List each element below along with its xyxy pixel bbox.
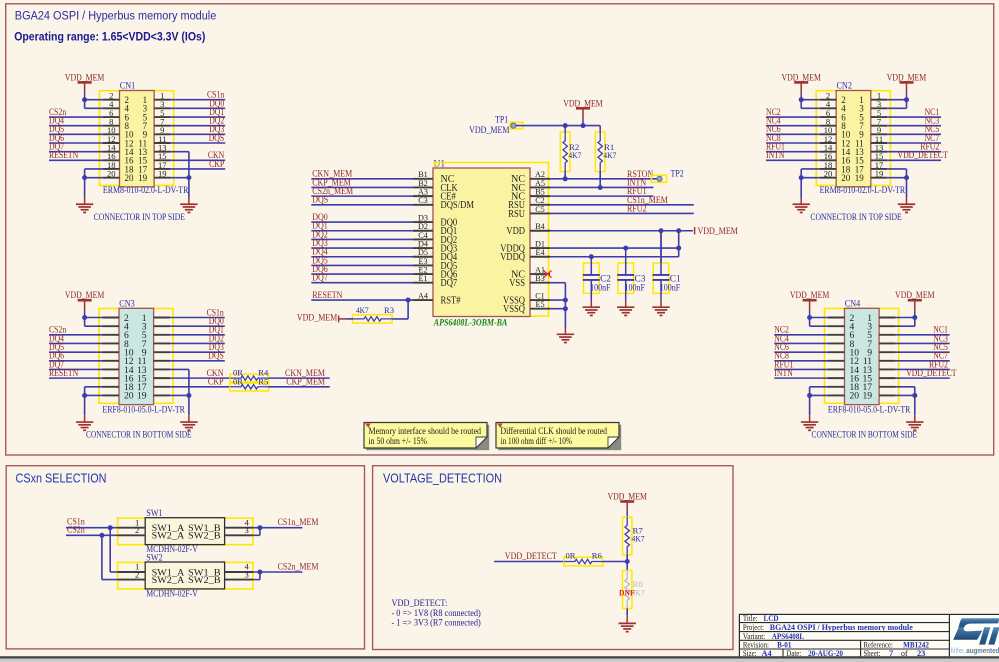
wire DQ2 to U1 [311,230,413,240]
test point TP2 [652,169,685,182]
CN4 pin stubs [828,318,896,396]
wire NC6 to CN4 pin 10 [774,342,828,352]
svg-text:0R: 0R [233,376,243,386]
power port VDD_MEM at VDD rail [695,227,738,237]
power symbol VDD_MEM at CN4 right [895,290,935,317]
SW2 pin names [152,568,221,586]
CN4 selection box [825,309,899,404]
svg-text:E3: E3 [418,257,427,266]
resistor R1 4K7 [595,126,617,172]
wire NC3 to CN2 pin 7 [887,116,941,126]
wire NC3 to CN4 pin 7 [896,333,950,343]
op IC U1 APS6408L [413,159,552,328]
svg-text:Title:: Title: [743,614,758,623]
wire VDDQ from U1 D1 [550,246,681,251]
svg-text:20: 20 [125,173,135,183]
power symbol VDD_MEM at CN2 right [887,72,927,99]
test point TP1 [469,116,523,136]
CN2 selection box [816,91,890,186]
svg-text:VDD_DETECT: VDD_DETECT [906,368,957,378]
svg-text:19: 19 [158,168,167,178]
wire CS2n_MEM to U1 [311,187,413,197]
svg-text:4K7: 4K7 [632,533,646,543]
ground symbol at CN2 left [793,204,810,212]
wire INTN to CN2 pin 16 [766,150,820,160]
svg-text:RFU2: RFU2 [627,204,647,214]
svg-text:VSS: VSS [509,278,525,289]
power symbol VDD_MEM at CN2 left [781,72,821,99]
svg-text:ERF8-010-05.0-L-DV-TR: ERF8-010-05.0-L-DV-TR [828,405,911,415]
svg-text:A1: A1 [535,265,545,274]
wire DQ6 to CN3 pin 12 [49,351,103,361]
svg-text:C2: C2 [535,196,545,205]
wire RFU2 to CN2 pin 13 [887,142,941,152]
svg-text:C5: C5 [535,205,545,214]
wire VDD_MEM to CN2 pins 2,4 [799,97,820,108]
svg-text:VDD: VDD [506,226,525,237]
wire NC5 to CN4 pin 9 [896,342,950,352]
svg-text:VDD_MEM: VDD_MEM [469,126,509,136]
svg-text:SW2_A: SW2_A [152,532,185,542]
window bottom strip [0,656,999,659]
U1 pin designators [418,170,545,309]
svg-text:ERM8-010-02.0-L-DV-TR: ERM8-010-02.0-L-DV-TR [820,186,906,196]
wire INTN to CN4 pin 16 [774,368,828,378]
wire CKN from CN3 pin 15 [170,369,230,379]
power symbol VDD_MEM above R1 R2 [563,98,603,125]
svg-text:INTN: INTN [774,368,793,378]
svg-text:VDD_MEM: VDD_MEM [65,290,105,300]
svg-text:A5: A5 [535,179,545,188]
svg-text:20: 20 [824,168,833,178]
wire DQ6 to U1 [311,265,413,275]
svg-text:RESETN: RESETN [49,368,79,378]
ground symbol below C2 [583,307,600,315]
svg-text:DQS/DM: DQS/DM [441,200,475,211]
wire DQ4 to CN1 pin 8 [49,116,103,126]
svg-text:VDD_MEM: VDD_MEM [563,98,603,108]
wire RESETN to CN1 pin 16 [49,150,103,160]
svg-text:VDD_MEM: VDD_MEM [790,290,830,300]
svg-text:E1: E1 [418,274,427,283]
connector CN1 [94,82,189,223]
svg-text:LCD: LCD [764,614,779,623]
resistor R8 4K7 DNF [619,562,645,609]
wire DQS to CN1 pin 11 [171,133,226,143]
svg-text:RST#: RST# [441,295,461,306]
svg-text:RESETN: RESETN [49,150,79,160]
svg-text:VDD_DETECT: VDD_DETECT [505,552,557,562]
wire ('VDD_DETECT', 956.5, 'end') to CN4 pin 15 [896,368,957,378]
wire R2 to RSTON [564,172,566,179]
CN2 body [836,91,871,187]
CN3 pin numbers [124,313,147,402]
wire RFU1 to CN2 pin 14 [766,142,820,152]
wire CS1n_MEM from U1 C2 [550,196,694,206]
svg-text:19: 19 [863,391,873,402]
wire CS1n to CN3 pin 1 [170,307,225,317]
wire TP1 VDD_MEM rail [516,123,600,128]
wire R3 to RESETN [392,300,408,319]
wire CS2n to SW1 pin 2 [66,526,118,538]
svg-text:VDD_MEM: VDD_MEM [65,72,105,82]
svg-text:0R: 0R [566,551,576,561]
svg-text:A3: A3 [418,188,428,197]
wire DQ0 to U1 [311,213,413,223]
CN4 pin numbers [850,313,873,402]
svg-text:CONNECTOR IN BOTTOM SIDE: CONNECTOR IN BOTTOM SIDE [812,431,918,441]
svg-text:in 100 ohm diff +/- 10%: in 100 ohm diff +/- 10% [501,436,573,446]
wire NC2 to CN4 pin 6 [774,325,828,335]
wire NC7 to CN4 pin 11 [896,351,950,361]
ground symbol at CN4 right [906,422,923,430]
wire RFU2 from U1 C5 [550,204,694,214]
svg-text:DQ7: DQ7 [312,274,328,284]
svg-text:SW2_B: SW2_B [188,532,221,542]
wire R1 to INTN [599,172,601,188]
wire DQ5 to CN1 pin 10 [49,124,103,134]
svg-text:CS2n: CS2n [67,526,85,536]
wire CKN to CN1 pin 15 [171,150,226,160]
svg-text:VDD_DETECT: VDD_DETECT [898,150,949,160]
wire INTN from U1 A5 [550,178,654,190]
CN3 selection box [99,309,173,404]
CN1 body [120,91,155,187]
resistor R2 4K7 [560,126,582,172]
CN1 pin numbers [107,91,167,183]
wire ('VDD_DETECT', 947.8, 'end') to CN2 pin 15 [887,150,948,160]
capacitor C3 100nF [617,248,646,307]
svg-text:CKP: CKP [208,378,224,388]
wire NC8 to CN4 pin 12 [774,351,828,361]
wire VSS VSSQ to ground [550,283,568,335]
svg-text:100nF: 100nF [660,283,680,293]
ground symbol below C1 [652,307,669,315]
CSxn selection section border [6,466,364,649]
svg-text:CKP_MEM: CKP_MEM [286,378,325,388]
wire DQ7 to CN1 pin 14 [49,142,103,152]
svg-text:VOLTAGE_DETECTION: VOLTAGE_DETECTION [383,470,502,485]
svg-text:R6: R6 [592,551,603,561]
U1 body [433,168,530,317]
wire RFU1 to CN4 pin 14 [774,359,828,369]
CN2 pin stubs [820,100,888,178]
power symbol VDD_MEM voltage detection [607,491,647,517]
U1 selection box [435,163,549,317]
svg-text:Differential CLK should be rou: Differential CLK should be routed [501,426,608,436]
wire NC4 to CN2 pin 8 [766,116,820,126]
svg-text:20: 20 [841,173,851,183]
svg-text:100nF: 100nF [590,283,610,293]
wire CKP_MEM from R5 [269,378,330,388]
wire VDD_MEM to CN1 pins 2,4 [82,97,103,108]
wire CS1n to SW1 pin 1 [66,518,118,531]
svg-text:3: 3 [244,569,248,579]
wire CN2 pins 18,20 to ground [799,169,820,204]
svg-text:CONNECTOR IN TOP SIDE: CONNECTOR IN TOP SIDE [810,213,902,223]
svg-text:CS1n_MEM: CS1n_MEM [278,518,319,528]
note: memory interface routing [364,423,489,451]
wire DQ7 to CN3 pin 14 [49,359,103,369]
svg-text:VDD_MEM: VDD_MEM [297,314,337,324]
svg-text:APS6408L: APS6408L [772,632,805,641]
wire DQ7 to U1 [311,274,413,284]
svg-text:A4: A4 [418,291,428,300]
U1 pin stubs [413,179,550,309]
svg-text:19: 19 [138,173,148,183]
wire DQ3 to CN3 pin 9 [170,342,225,352]
svg-text:ERF8-010-05.0-L-DV-TR: ERF8-010-05.0-L-DV-TR [102,405,185,415]
wire NC5 to CN2 pin 9 [887,124,941,134]
voltage detection explanation text [392,598,481,628]
wire RESETN to CN3 pin 16 [49,368,103,378]
ground symbol at CN3 right [180,422,197,430]
ground symbol at CN1 right [180,204,197,212]
connector CN3 [86,299,192,440]
wire DQ3 to U1 [311,239,413,249]
switch SW1 MCDHN-02F-V [118,509,253,555]
note: differential clock routing [496,423,621,451]
SW2 pin stubs [118,572,253,580]
CN4 body [845,308,880,404]
wire VDD net from U1 B4 [550,228,693,233]
wire NC7 to CN2 pin 11 [887,133,941,143]
wire VDD_MEM to CN4 pins 2,4 [807,315,828,326]
switch SW2 MCDHN-02F-V [118,553,253,599]
power port VDD_MEM at R3 [297,314,346,324]
capacitor C1 100nF [653,231,682,307]
wire DQ0 to CN3 pin 3 [170,316,225,326]
wire NC2 to CN2 pin 6 [766,107,820,117]
svg-text:TP2: TP2 [671,169,685,179]
svg-text:CONNECTOR IN TOP SIDE: CONNECTOR IN TOP SIDE [94,213,186,223]
svg-text:E5: E5 [535,300,544,309]
svg-text:RESETN: RESETN [312,291,342,301]
svg-text:19: 19 [875,168,884,178]
SW1 pin stubs [118,528,253,536]
svg-text:VDD_MEM: VDD_MEM [698,227,738,237]
SW1 pin names [152,524,221,542]
wire CN3 pins 18,20 to ground [82,387,102,422]
wire CS2n to CN3 pin 6 [49,325,103,335]
wire DQ5 to U1 [311,256,413,266]
wire CN3 right pins to ground [170,369,191,422]
wire CN4 right pins to ground [896,387,918,422]
svg-text:20: 20 [107,168,116,178]
wire CS1n_MEM from SW1 [253,518,319,535]
wire C1 to VDD rail [660,231,662,264]
power symbol VDD_MEM at CN3 left [65,290,105,317]
svg-text:R5: R5 [258,376,268,386]
svg-text:D4: D4 [418,239,428,248]
svg-text:D3: D3 [418,214,428,223]
svg-text:DQ7: DQ7 [441,278,458,289]
svg-text:SW2_B: SW2_B [188,576,221,586]
power symbol VDD_MEM at CN4 left [790,290,830,317]
svg-text:C4: C4 [418,231,428,240]
ground symbol below U1 VSS [557,334,574,342]
wire NC8 to CN2 pin 12 [766,133,820,143]
svg-text:MCDHN-02F-V: MCDHN-02F-V [146,589,198,599]
wire R6 to node [603,561,628,563]
ground symbol at CN3 left [76,422,93,430]
svg-text:B1: B1 [418,170,428,179]
wire RSTON from U1 A2 [550,170,657,182]
svg-text:Memory interface should be rou: Memory interface should be routed [369,426,482,436]
wire CS1n to CN1 pin 1 [171,90,226,100]
svg-text:B5: B5 [535,188,545,197]
SW1 body [145,518,224,545]
svg-text:CKP: CKP [209,159,224,169]
wire CN1 pins 18,20 to ground [82,169,103,204]
wire CKN_MEM from R4 [269,369,330,379]
svg-text:VDD_MEM: VDD_MEM [887,72,927,82]
wire CKP from CN3 pin 17 [170,378,230,388]
wire DQ1 to CN3 pin 5 [170,325,225,335]
svg-text:B4: B4 [535,222,545,231]
svg-text:D5: D5 [418,248,428,257]
wire VDD_MEM to CN4 pins 1,3 [896,315,918,326]
svg-text:D2: D2 [418,222,428,231]
wire DQ1 to CN1 pin 5 [171,107,226,117]
wire CN4 pins 18,20 to ground [807,387,828,422]
SW2 pin numbers [135,562,250,580]
wire CS2n_MEM from SW2 [253,562,319,579]
resistor R5 0R [230,376,269,391]
svg-text:DQS: DQS [209,133,225,143]
wire DQ2 to CN1 pin 7 [171,116,226,126]
title block texts [743,614,929,658]
svg-text:C1: C1 [535,291,545,300]
wire DQ3 to CN1 pin 9 [171,124,226,134]
connector CN2 [810,82,905,223]
svg-text:19: 19 [855,173,865,183]
svg-text:DQS: DQS [312,196,328,206]
CN3 pin stubs [103,318,171,396]
svg-text:Variant:: Variant: [743,632,765,641]
resistor R4 0R [230,368,269,382]
svg-text:VDD_MEM: VDD_MEM [895,290,935,300]
wire VDD_MEM to CN3 pins 2,4 [82,315,102,326]
wire CKP to CN1 pin 17 [171,159,226,169]
svg-text:BGA24 OSPI / Hyperbus memory m: BGA24 OSPI / Hyperbus memory module [15,8,217,22]
ground symbol at CN1 left [76,204,93,212]
capacitor C2 100nF [583,257,612,307]
svg-text:VDD_MEM: VDD_MEM [781,72,821,82]
svg-text:VDD_MEM: VDD_MEM [607,491,647,501]
svg-text:2: 2 [135,525,139,535]
wire DQ2 to CN3 pin 7 [170,333,225,343]
svg-text:VDDQ: VDDQ [500,252,525,263]
svg-text:life.: life. [951,648,967,655]
wire RFU1 from U1 B5 [550,187,654,197]
CN2 pin numbers [824,91,884,183]
CN3 body [119,308,154,404]
svg-text:4K7: 4K7 [568,150,582,160]
wire NC1 to CN2 pin 5 [887,107,941,117]
wire CS2n to CN1 pin 6 [49,107,103,117]
wire DQ4 to CN3 pin 8 [49,333,103,343]
SW2 body [145,562,224,589]
svg-text:3: 3 [244,525,248,535]
wire DQ6 to CN1 pin 12 [49,133,103,143]
wire R7 to node [625,555,630,564]
svg-text:E2: E2 [418,265,427,274]
ST logo [950,615,999,657]
svg-text:DQS: DQS [208,351,224,361]
ground symbol voltage detection [619,623,636,631]
svg-text:APS6408L-3OBM-BA: APS6408L-3OBM-BA [433,318,507,328]
ground symbol at CN4 left [801,422,818,430]
U1 pin A1 no-connect cross [544,270,552,277]
ground symbol below C3 [617,307,634,315]
wire VDDQ from U1 E4 [550,231,679,259]
svg-text:4K7: 4K7 [356,305,369,315]
CN1 selection box [100,91,174,186]
svg-text:INTN: INTN [766,150,785,160]
svg-text:B2: B2 [418,179,428,188]
wire NC4 to CN4 pin 8 [774,333,828,343]
connector CN4 [812,299,918,440]
svg-text:100nF: 100nF [625,283,645,293]
wire RFU2 to CN4 pin 13 [896,359,950,369]
svg-text:DNF: DNF [619,587,635,597]
wire CKP_MEM to U1 [311,178,413,188]
SW2 selection box [118,562,253,589]
svg-text:RSU: RSU [508,209,525,220]
voltage detection section border [373,466,733,650]
svg-text:Operating range: 1.65<VDD<3.3V: Operating range: 1.65<VDD<3.3V (IOs) [14,30,205,44]
svg-text:B3: B3 [535,274,545,283]
wire R8 to ground [626,609,628,624]
wire DQ1 to U1 [311,222,413,232]
svg-text:CS2n_MEM: CS2n_MEM [278,562,319,572]
svg-text:CSxn SELECTION: CSxn SELECTION [16,470,107,485]
svg-text:augmented: augmented [966,648,999,655]
wire DQ4 to U1 [311,248,413,258]
svg-text:2: 2 [135,569,139,579]
svg-text:ERM8-010-02.0-L-DV-TR: ERM8-010-02.0-L-DV-TR [103,186,189,196]
svg-text:CONNECTOR IN BOTTOM SIDE: CONNECTOR IN BOTTOM SIDE [86,431,192,441]
svg-text:20: 20 [124,391,134,402]
wire DQ0 to CN1 pin 3 [171,98,226,108]
wire CS1n to SW2 pin 1 [110,528,118,572]
wire CN1 right pins to ground [171,152,192,205]
wire DQ5 to CN3 pin 10 [49,342,103,352]
svg-text:C3: C3 [418,196,428,205]
resistor R7 4K7 [623,517,646,555]
ground symbol at CN2 right [898,204,915,212]
main schematic sheet border [6,4,994,455]
svg-text:in 50 ohm +/- 15%: in 50 ohm +/- 15% [369,436,428,446]
svg-text:SW2_A: SW2_A [152,576,185,586]
SW1 pin numbers [135,517,250,535]
wire VDD_DETECT [494,552,564,562]
svg-text:20: 20 [850,391,860,402]
svg-text:- 1 => 3V3 (R7 connected): - 1 => 3V3 (R7 connected) [392,618,481,629]
wire NC6 to CN2 pin 10 [766,124,820,134]
wire DQS to U1 [311,196,413,206]
wire CKN_MEM to U1 [311,170,413,180]
SW1 selection box [118,518,253,545]
title block [739,614,999,658]
wire DQS to CN3 pin 11 [170,351,225,361]
U1 pin names [441,174,526,315]
wire RESETN to U1 RST# [311,291,413,303]
svg-text:VSSQ: VSSQ [503,304,526,315]
svg-text:19: 19 [137,391,147,402]
svg-text:R3: R3 [384,305,394,315]
